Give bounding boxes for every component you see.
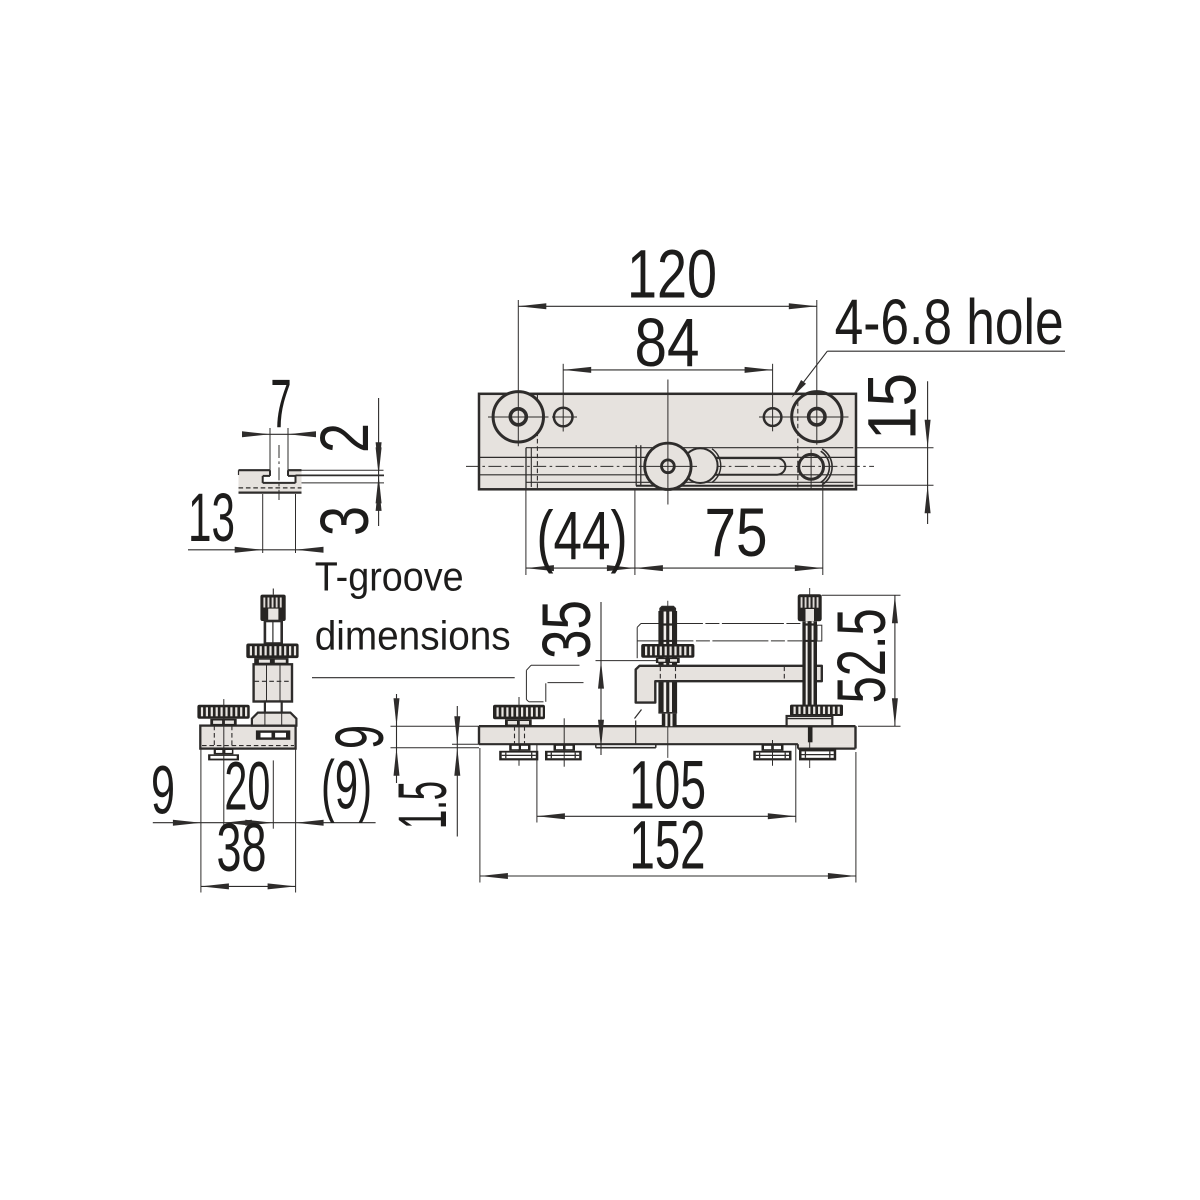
side view slide shoe	[252, 713, 297, 726]
front view arm hidden screw hole edge	[783, 667, 785, 681]
side view left nut	[197, 705, 249, 719]
svg-text:120: 120	[627, 236, 717, 313]
t-groove lip underside	[263, 475, 270, 477]
t-groove slot walls	[269, 470, 271, 476]
svg-text:(44): (44)	[537, 497, 628, 574]
t-groove cavity walls	[262, 476, 264, 483]
front view arm tnut hidden edge	[635, 721, 637, 745]
dimension 84 line	[563, 369, 772, 371]
dimension 52.5 extension lines	[822, 594, 901, 596]
t-groove hidden line	[239, 487, 302, 489]
t-groove slot centerline	[278, 445, 280, 500]
dimension 120 extension/centerlines	[517, 300, 519, 446]
top view clamp knob circle	[645, 443, 691, 489]
t-groove cavity bottom	[263, 482, 296, 484]
svg-text:3: 3	[306, 506, 383, 536]
front view left clamp collar	[505, 719, 532, 726]
dimension 2 line and arrows	[378, 398, 380, 526]
top view hidden line left	[536, 395, 538, 490]
dimension 38 line	[201, 885, 296, 887]
svg-text:52.5: 52.5	[823, 608, 900, 703]
front view rod top cap	[660, 606, 675, 611]
dimension 52.5 line	[894, 595, 896, 726]
dimension 15 line and arrows	[927, 381, 929, 524]
side view base plate	[200, 726, 295, 749]
front view rod lower joint	[658, 712, 677, 714]
top view right screw circle	[792, 392, 842, 442]
front view foot2 flange	[545, 751, 582, 761]
svg-text:7: 7	[271, 365, 292, 442]
front view phantom arm raised bottom line	[637, 640, 802, 642]
top view slot	[700, 458, 785, 475]
side view screw knurled head	[260, 595, 285, 621]
front view screw knurled head	[798, 594, 822, 621]
front view phantom hook left position	[531, 664, 580, 666]
side view foot stem	[214, 749, 234, 755]
top view horizontal centerline	[466, 465, 874, 467]
front view foot3 centerline	[772, 740, 774, 766]
top view right small hole	[764, 408, 782, 426]
front view foot1 flange	[499, 751, 538, 761]
dimension (44) extension lines	[525, 490, 527, 575]
front view rod body upper	[658, 611, 677, 666]
top view base plate	[479, 394, 856, 490]
svg-text:152: 152	[630, 807, 706, 884]
svg-text:4-6.8 hole: 4-6.8 hole	[835, 286, 1064, 358]
front view screw lower knurled nut	[790, 705, 843, 716]
dimension 7 extension lines	[269, 428, 271, 470]
front view base plate	[479, 726, 856, 744]
dimension 152 extension lines	[479, 748, 481, 883]
dimension 13 extension lines	[262, 494, 264, 553]
svg-text:35: 35	[528, 600, 605, 659]
dimension 120 line	[518, 305, 817, 307]
front view left clamp centerline	[518, 697, 520, 766]
front view foot3 flange	[753, 751, 791, 761]
svg-text:9: 9	[321, 725, 398, 749]
top view band line 2	[479, 456, 856, 458]
front view rod centerline	[667, 601, 669, 758]
svg-text:75: 75	[705, 494, 768, 571]
front view left clamp knurled nut	[493, 705, 545, 720]
dimension 84 extension lines	[562, 364, 564, 432]
front view break tick near hook	[635, 710, 642, 719]
dimension 13 line	[188, 549, 320, 551]
top view right lower circle centerline	[810, 449, 812, 490]
svg-text:9: 9	[151, 752, 175, 829]
front view arm hidden rod edge	[659, 667, 661, 681]
front view screw tip in plate	[808, 726, 813, 742]
side view rod neck	[265, 702, 282, 713]
side view centerlines	[223, 699, 225, 766]
dimension 3 arrows	[376, 447, 382, 475]
svg-text:(9): (9)	[321, 747, 372, 824]
top view hidden line right	[797, 402, 799, 490]
svg-text:13: 13	[188, 479, 235, 556]
t-groove top surface	[239, 469, 271, 471]
dimension 7 line	[243, 433, 313, 435]
top view knob centerline	[667, 380, 669, 505]
t-groove bottom edge	[239, 492, 302, 494]
front view rod collar	[656, 658, 680, 663]
front view bottom step strip	[595, 744, 597, 748]
dimension 2/3 extension lines	[302, 469, 384, 471]
top view rail front edge	[636, 485, 853, 487]
side view t-nut bar	[256, 730, 290, 739]
dimension 105 line	[537, 815, 796, 817]
side view dim extension lines	[200, 749, 202, 893]
dimension 35 extension line	[596, 660, 657, 662]
front view phantom arm right end piece	[817, 625, 822, 641]
front view phantom arm raised top line	[641, 623, 802, 625]
dimension (44)/75 line	[526, 567, 823, 569]
side view dim line 9/20/(9)	[153, 822, 376, 824]
top view right washer arcs	[821, 451, 830, 482]
t-groove left end break tick	[238, 470, 240, 475]
svg-text:15: 15	[854, 373, 931, 440]
svg-text:1.5: 1.5	[384, 781, 461, 829]
front view foot3 stem	[762, 744, 784, 751]
side view screw top tick	[272, 589, 274, 595]
side view knurled nut	[246, 644, 298, 659]
dimension 105 extension lines	[536, 745, 538, 823]
front view rod knurled nut	[641, 644, 694, 658]
dimension 9 front line	[396, 694, 398, 783]
svg-text:84: 84	[635, 304, 700, 381]
front view foot2 centerline	[563, 718, 565, 766]
front view phantom arm left edge	[636, 627, 638, 658]
front view screw shaft	[802, 621, 817, 716]
front view foot4 flange	[799, 749, 836, 761]
top view band line 4	[526, 481, 853, 483]
top view rail left end lines	[525, 448, 527, 489]
side view hidden hole lines	[213, 726, 215, 746]
dimension 1.5 line	[456, 706, 458, 837]
left circle crosshair	[488, 416, 549, 418]
front view arm	[636, 666, 822, 703]
top view left small hole	[554, 408, 573, 427]
svg-text:dimensions: dimensions	[315, 613, 511, 659]
svg-text:2: 2	[306, 423, 383, 453]
t-groove detail gray fill	[239, 470, 302, 492]
front view plate bottom edges	[479, 743, 798, 745]
top view band line 3	[479, 474, 856, 476]
svg-text:T-groove: T-groove	[315, 554, 464, 600]
dimension 9 front extension lines	[391, 725, 480, 727]
front view left clamp hidden screw	[514, 726, 516, 744]
top view right lower circle	[799, 454, 824, 479]
side view rod upper	[265, 621, 282, 644]
front view foot1 stem	[509, 744, 530, 751]
side view left nut collar	[210, 719, 236, 726]
front view screw centerline	[809, 588, 811, 768]
top view arm edge lines	[635, 445, 637, 486]
dimension 15 extension lines	[857, 447, 934, 449]
side view arm hidden line	[255, 680, 292, 682]
top view washer circle at knob	[683, 448, 718, 483]
top view slide band line upper	[526, 447, 853, 449]
front view rod body lower	[658, 681, 677, 713]
side view t-groove hidden bottom	[202, 745, 294, 747]
side view collar	[254, 658, 288, 664]
label underline	[312, 677, 515, 679]
label 4-6.8 hole leader	[827, 350, 1065, 352]
side view foot flange	[208, 754, 239, 760]
dimension 152 line	[480, 875, 856, 877]
top view left screw circle	[493, 392, 543, 442]
dimension 35 line	[600, 602, 602, 755]
front view foot2 stem	[554, 744, 576, 751]
front view screw washer	[787, 716, 833, 726]
svg-text:38: 38	[217, 809, 267, 886]
side view arm block	[254, 664, 292, 701]
